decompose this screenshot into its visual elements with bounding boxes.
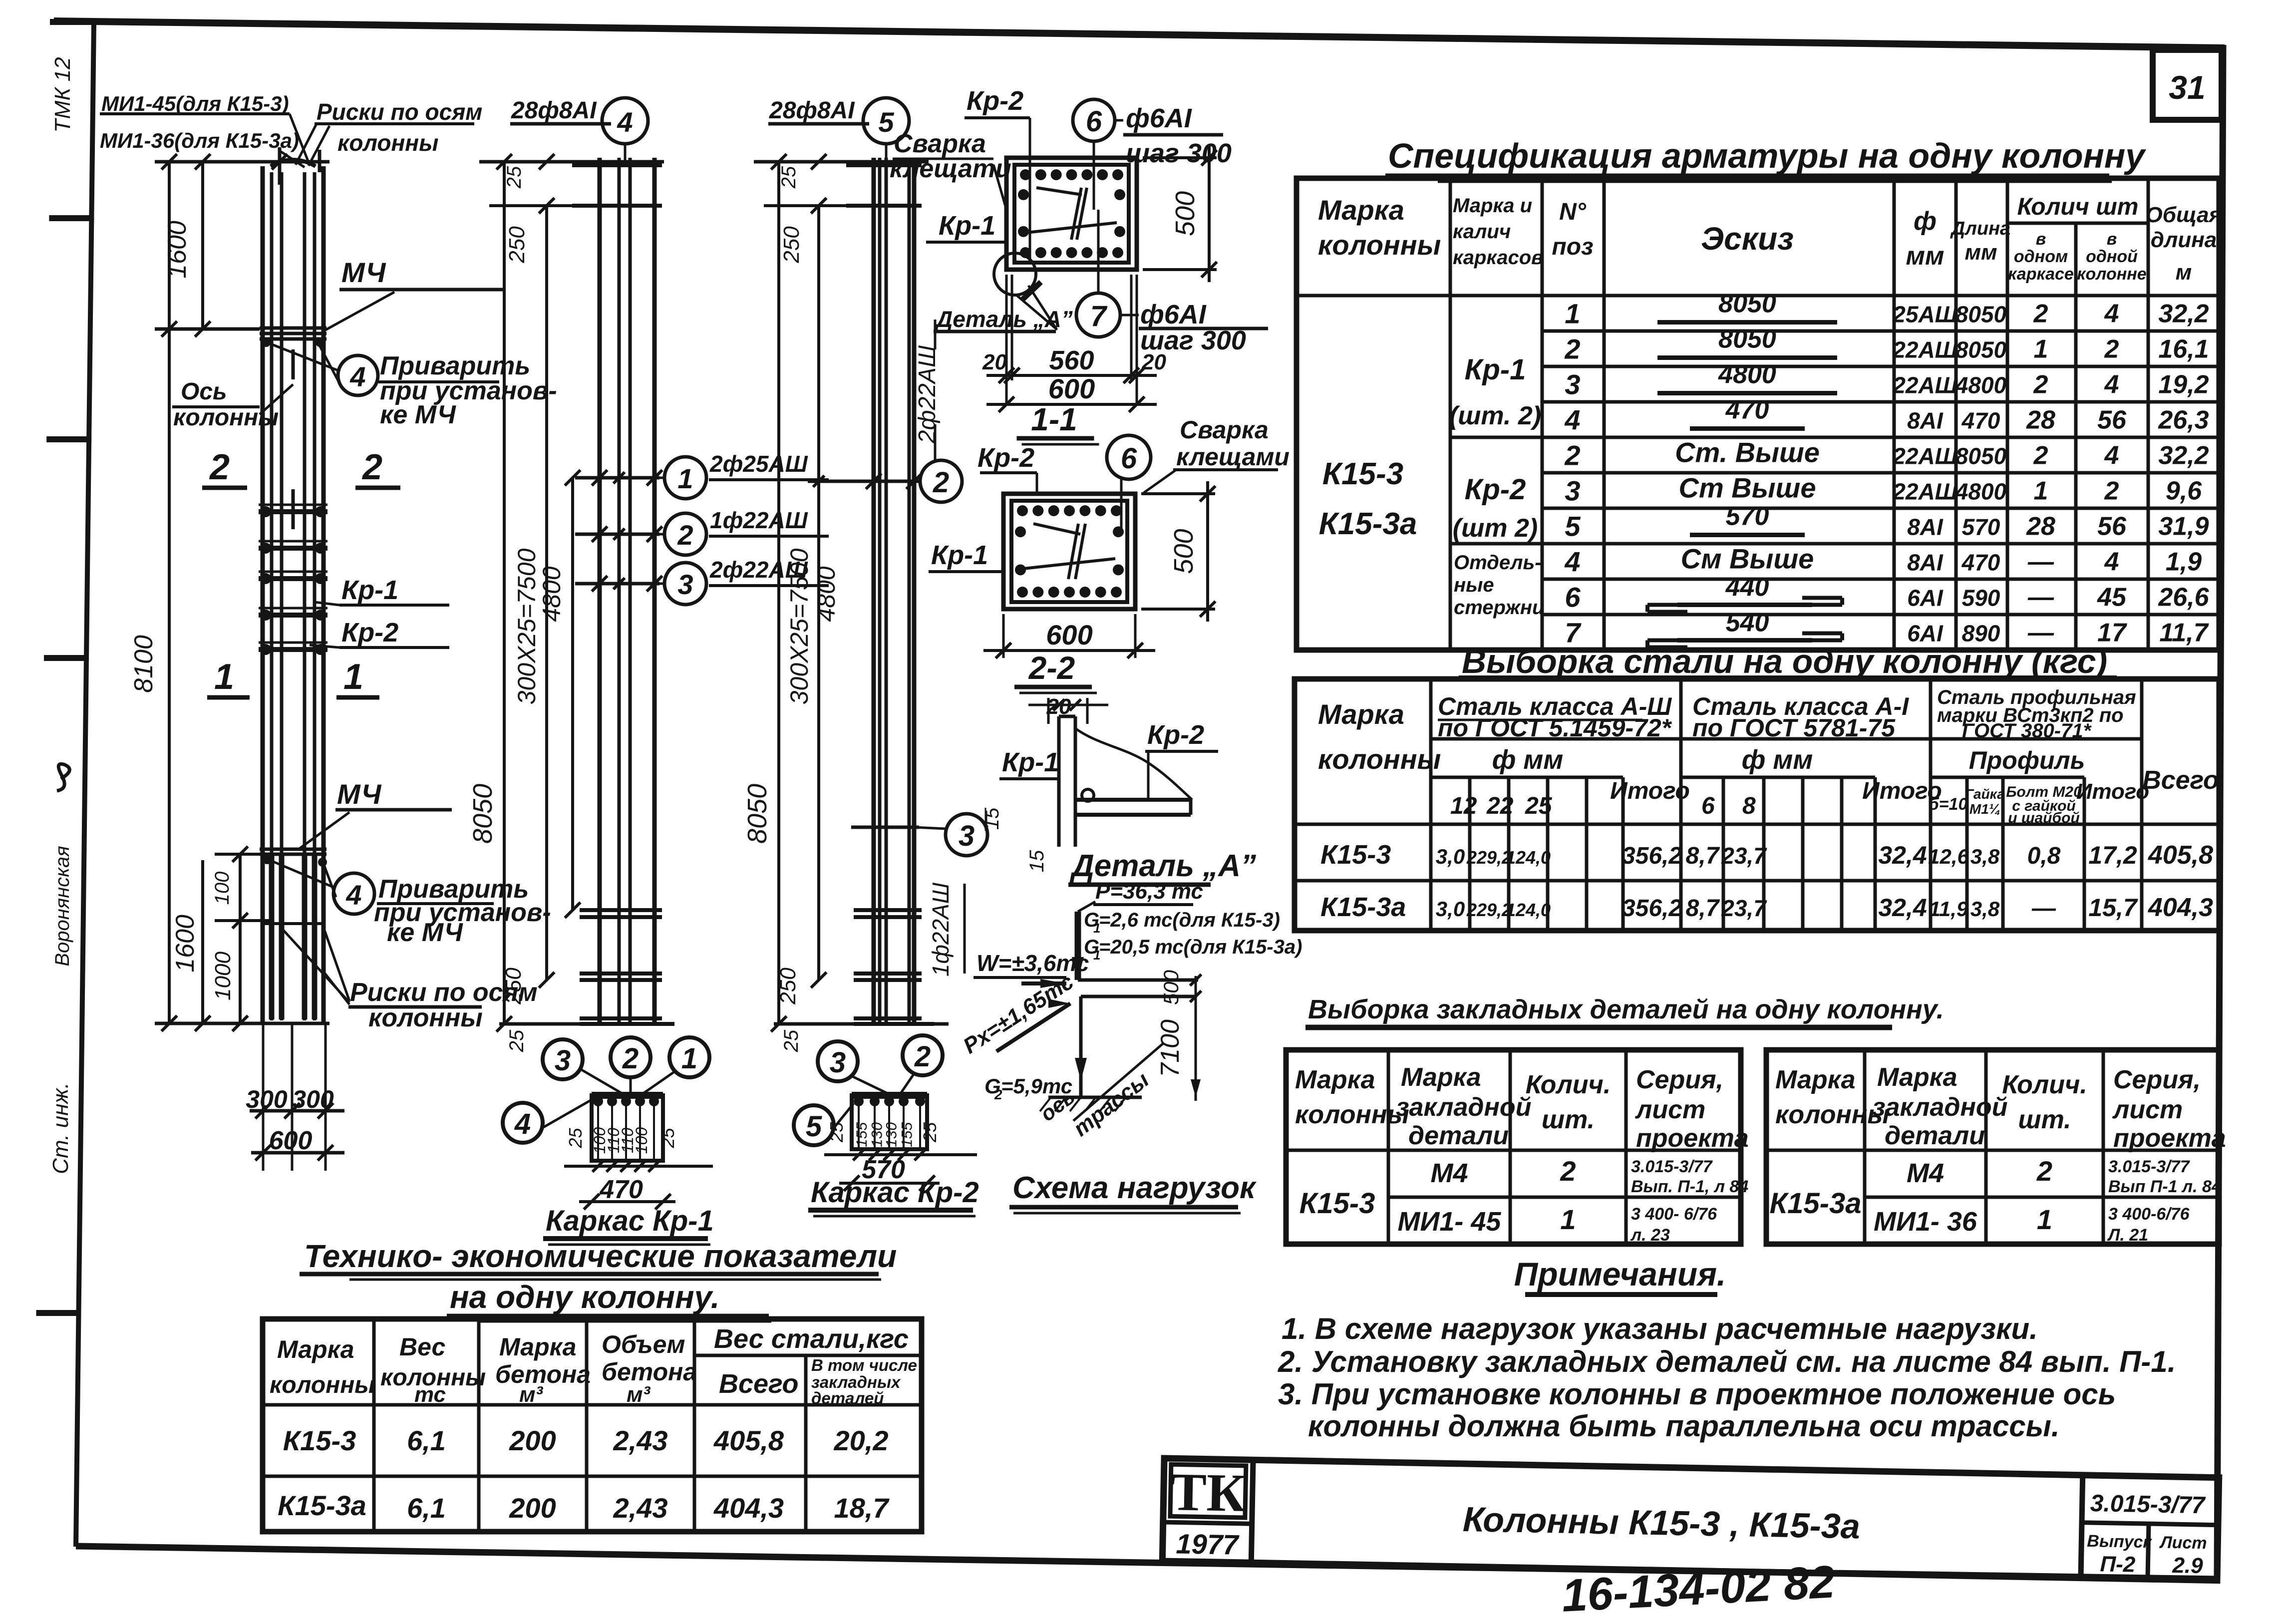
svg-text:31,9: 31,9: [2158, 512, 2209, 541]
svg-text:лист: лист: [2112, 1095, 2183, 1124]
svg-text:405,8: 405,8: [2148, 841, 2213, 870]
svg-text:=5,9тс: =5,9тс: [1001, 1074, 1072, 1098]
svg-text:17,2: 17,2: [2088, 841, 2137, 869]
svg-text:31: 31: [2169, 69, 2205, 106]
svg-text:одной: одной: [2086, 247, 2138, 266]
svg-text:Вес: Вес: [399, 1333, 446, 1361]
svg-text:Вес стали,кгс: Вес стали,кгс: [714, 1324, 909, 1354]
svg-text:м³: м³: [627, 1382, 651, 1407]
svg-text:100: 100: [633, 1127, 650, 1154]
svg-text:колонны: колонны: [1318, 743, 1441, 775]
svg-text:Марка: Марка: [1775, 1065, 1856, 1094]
svg-text:3: 3: [1565, 475, 1580, 507]
svg-text:колонне: колонне: [2077, 265, 2146, 284]
svg-text:и шайбой: и шайбой: [2008, 810, 2080, 826]
svg-text:1: 1: [2034, 477, 2048, 506]
svg-text:45: 45: [2097, 583, 2127, 612]
svg-text:4: 4: [1564, 546, 1580, 578]
svg-text:Колич.: Колич.: [2002, 1070, 2087, 1099]
svg-text:К15-3а: К15-3а: [1770, 1187, 1862, 1220]
svg-text:—: —: [2027, 548, 2054, 577]
svg-text:2: 2: [914, 1040, 931, 1073]
svg-text:8050: 8050: [1718, 290, 1776, 319]
svg-text:6: 6: [1565, 582, 1581, 613]
svg-text:3: 3: [555, 1044, 571, 1077]
svg-text:404,3: 404,3: [2148, 893, 2213, 922]
svg-text:28: 28: [2026, 512, 2055, 541]
svg-text:2: 2: [1560, 1155, 1576, 1187]
svg-text:ф6АI: ф6АI: [1140, 300, 1207, 329]
svg-text:ф мм: ф мм: [1742, 745, 1813, 775]
svg-text:405,8: 405,8: [713, 1425, 784, 1456]
svg-text:25: 25: [506, 1029, 528, 1052]
svg-text:ф: ф: [1914, 207, 1937, 236]
svg-text:—: —: [2027, 583, 2054, 612]
svg-text:колонны: колонны: [1295, 1100, 1409, 1129]
svg-text:Колонны К15-3 , К15-3а: Колонны К15-3 , К15-3а: [1462, 1500, 1860, 1546]
svg-text:4800: 4800: [1955, 372, 2007, 398]
svg-text:МИ1-36(для К15-3а): МИ1-36(для К15-3а): [100, 129, 299, 152]
svg-text:25: 25: [778, 166, 800, 189]
svg-text:2. Установку закладных детал: 2. Установку закладных деталей см. на ли…: [1278, 1345, 2176, 1378]
svg-text:250: 250: [501, 968, 526, 1005]
svg-text:Колич.: Колич.: [1526, 1070, 1611, 1099]
svg-text:8050: 8050: [468, 784, 498, 844]
svg-text:мм: мм: [1906, 242, 1945, 271]
svg-text:3: 3: [677, 569, 693, 600]
svg-text:4: 4: [514, 1108, 531, 1140]
svg-text:П-2: П-2: [2100, 1552, 2136, 1577]
svg-text:470: 470: [1725, 396, 1769, 425]
svg-text:одном: одном: [2014, 247, 2068, 266]
svg-text:11,9: 11,9: [1929, 897, 1968, 921]
svg-text:2: 2: [1564, 440, 1580, 471]
svg-text:2,43: 2,43: [613, 1425, 668, 1456]
svg-text:ф6АI: ф6АI: [1126, 103, 1192, 133]
svg-text:22АШ: 22АШ: [1892, 443, 1957, 469]
svg-text:6: 6: [1701, 793, 1715, 819]
svg-text:Деталь „А”: Деталь „А”: [1069, 849, 1256, 883]
svg-text:570: 570: [1726, 502, 1769, 531]
svg-text:1,9: 1,9: [2166, 548, 2202, 577]
svg-text:МИ1- 45: МИ1- 45: [1398, 1207, 1502, 1237]
svg-text:23,7: 23,7: [1721, 843, 1767, 869]
svg-text:440: 440: [1725, 573, 1769, 602]
svg-text:4: 4: [617, 106, 633, 138]
svg-text:300X25=7500: 300X25=7500: [513, 548, 541, 704]
svg-text:Итого: Итого: [1610, 778, 1690, 804]
svg-text:Марка: Марка: [277, 1335, 354, 1363]
svg-text:4800: 4800: [812, 566, 840, 622]
svg-text:2ф22АШ: 2ф22АШ: [914, 345, 941, 444]
svg-text:22АШ: 22АШ: [1892, 479, 1957, 505]
svg-text:проекта: проекта: [1636, 1124, 1749, 1153]
svg-text:Общая: Общая: [2146, 203, 2222, 227]
svg-text:МЧ: МЧ: [337, 778, 382, 810]
svg-text:шаг 300: шаг 300: [1126, 138, 1232, 168]
svg-text:м³: м³: [519, 1382, 544, 1407]
svg-text:1: 1: [677, 463, 693, 494]
svg-text:6: 6: [1086, 105, 1102, 138]
svg-text:25: 25: [826, 1122, 847, 1143]
svg-text:11,7: 11,7: [2159, 619, 2209, 648]
svg-text:7: 7: [1090, 300, 1108, 332]
svg-text:2: 2: [2033, 441, 2048, 470]
svg-text:Итого: Итого: [2076, 779, 2149, 804]
svg-text:в: в: [2107, 230, 2117, 249]
svg-text:4: 4: [345, 879, 361, 911]
svg-text:колонны: колонны: [270, 1372, 375, 1398]
svg-text:124,0: 124,0: [1506, 900, 1551, 920]
svg-text:1: 1: [214, 657, 234, 697]
svg-text:тс: тс: [414, 1382, 446, 1407]
svg-text:=2,6 тс(для К15-3): =2,6 тс(для К15-3): [1099, 909, 1280, 931]
svg-text:56: 56: [2097, 512, 2127, 541]
svg-text:Кр-2: Кр-2: [977, 443, 1034, 473]
svg-text:8050: 8050: [1955, 302, 2007, 327]
svg-text:8АI: 8АI: [1907, 550, 1944, 576]
svg-text:3,0: 3,0: [1436, 897, 1465, 921]
svg-text:3: 3: [1565, 369, 1580, 400]
svg-text:Ось: Ось: [181, 378, 227, 405]
svg-text:8АI: 8АI: [1907, 408, 1944, 434]
svg-text:500: 500: [1159, 970, 1183, 1005]
svg-text:4800: 4800: [538, 566, 566, 622]
svg-text:Ст. Выше: Ст. Выше: [1675, 437, 1820, 468]
svg-text:32,2: 32,2: [2158, 300, 2209, 328]
svg-text:2.9: 2.9: [2172, 1553, 2204, 1578]
svg-text:6: 6: [1121, 442, 1137, 475]
svg-text:22АШ: 22АШ: [1892, 337, 1957, 363]
svg-text:Кр-1: Кр-1: [931, 540, 988, 570]
svg-text:Кр-2: Кр-2: [341, 618, 398, 648]
svg-text:250: 250: [779, 226, 804, 264]
svg-text:деталей: деталей: [811, 1389, 884, 1407]
svg-text:P=36,3 тс: P=36,3 тс: [1095, 879, 1203, 904]
svg-text:590: 590: [1962, 585, 2000, 611]
svg-text:3 400- 6/76: 3 400- 6/76: [1631, 1205, 1717, 1224]
svg-text:по ГОСТ 5.1459-72*: по ГОСТ 5.1459-72*: [1438, 714, 1672, 742]
svg-text:по ГОСТ 5781-75: по ГОСТ 5781-75: [1692, 714, 1896, 742]
svg-text:2: 2: [2036, 1155, 2052, 1187]
svg-text:2: 2: [677, 519, 693, 551]
svg-text:Деталь „А”: Деталь „А”: [934, 306, 1073, 332]
svg-text:22: 22: [1486, 793, 1514, 819]
svg-text:500: 500: [1169, 529, 1199, 574]
svg-text:2: 2: [1564, 333, 1580, 365]
svg-text:32,2: 32,2: [2158, 441, 2209, 470]
svg-text:2: 2: [2033, 300, 2048, 328]
svg-text:Примечания.: Примечания.: [1514, 1256, 1726, 1293]
svg-text:закладной: закладной: [1872, 1093, 2007, 1122]
svg-text:м: м: [2176, 260, 2192, 285]
svg-text:Длина: Длина: [1950, 218, 2010, 239]
svg-text:229,2: 229,2: [1466, 847, 1512, 868]
svg-text:20,2: 20,2: [834, 1425, 889, 1456]
svg-text:Риски по осям: Риски по осям: [317, 99, 482, 125]
svg-text:25АШ: 25АШ: [1892, 302, 1957, 327]
svg-text:колонны: колонны: [1318, 229, 1441, 261]
svg-text:1: 1: [681, 1042, 697, 1075]
svg-text:18,7: 18,7: [834, 1492, 890, 1524]
svg-text:Марка: Марка: [1318, 194, 1404, 226]
svg-text:3: 3: [830, 1046, 846, 1079]
svg-text:3. При установке колонны: 3. При установке колонны в проектное пол…: [1278, 1377, 2116, 1411]
svg-text:Марка и: Марка и: [1453, 195, 1532, 217]
svg-text:МИ1- 36: МИ1- 36: [1874, 1207, 1977, 1237]
svg-text:28ф8АI: 28ф8АI: [511, 97, 597, 124]
svg-text:Серия,: Серия,: [2113, 1065, 2201, 1094]
svg-text:4: 4: [2104, 548, 2119, 577]
svg-text:колонны: колонны: [337, 130, 438, 156]
svg-text:5: 5: [878, 106, 894, 138]
svg-text:1-1: 1-1: [1031, 401, 1077, 437]
svg-text:К15-3а: К15-3а: [1319, 507, 1417, 541]
svg-text:12: 12: [1450, 793, 1477, 819]
svg-text:длина: длина: [2151, 228, 2217, 252]
svg-text:4: 4: [2104, 300, 2119, 328]
svg-text:ные: ные: [1454, 574, 1494, 596]
svg-text:Эскиз: Эскиз: [1701, 221, 1794, 257]
svg-text:Каркас Кр-1: Каркас Кр-1: [546, 1205, 714, 1237]
svg-text:2: 2: [2104, 335, 2119, 364]
svg-text:4: 4: [349, 361, 365, 392]
svg-text:Всего: Всего: [719, 1369, 799, 1399]
svg-text:б=10: б=10: [1929, 795, 1968, 814]
svg-text:250: 250: [505, 226, 529, 264]
svg-text:1600: 1600: [163, 221, 192, 279]
svg-text:Выпуск: Выпуск: [2087, 1532, 2153, 1552]
svg-text:6,1: 6,1: [407, 1425, 446, 1456]
svg-text:Профиль: Профиль: [1969, 746, 2085, 774]
svg-text:32,4: 32,4: [1878, 894, 1927, 922]
svg-text:Серия,: Серия,: [1636, 1065, 1723, 1094]
svg-text:Марка: Марка: [1318, 698, 1404, 730]
svg-text:каркасе: каркасе: [2008, 265, 2074, 284]
svg-text:3,8: 3,8: [1970, 897, 2000, 921]
svg-text:25: 25: [780, 1029, 802, 1052]
svg-text:Марка: Марка: [1401, 1063, 1481, 1092]
svg-text:356,2: 356,2: [1622, 895, 1682, 922]
svg-text:Колич шт: Колич шт: [2017, 194, 2139, 220]
svg-text:Выборка закладных деталей: Выборка закладных деталей на одну колонн…: [1308, 994, 1944, 1024]
svg-text:К15-3а: К15-3а: [278, 1490, 366, 1521]
svg-text:1000: 1000: [211, 952, 235, 1000]
svg-text:3.015-3/77: 3.015-3/77: [2108, 1157, 2191, 1176]
svg-text:26,6: 26,6: [2158, 583, 2209, 612]
svg-text:8050: 8050: [742, 784, 772, 844]
svg-text:К15-3: К15-3: [1320, 840, 1391, 870]
svg-text:2: 2: [2104, 477, 2119, 506]
svg-text:детали: детали: [1408, 1121, 1509, 1150]
svg-text:16,1: 16,1: [2158, 335, 2209, 364]
svg-text:2: 2: [361, 447, 382, 487]
svg-text:600: 600: [1046, 619, 1092, 650]
svg-text:9,6: 9,6: [2166, 477, 2202, 506]
svg-text:Схема нагрузок: Схема нагрузок: [1012, 1171, 1257, 1205]
svg-text:3: 3: [959, 820, 975, 852]
svg-text:300X25=7500: 300X25=7500: [785, 548, 813, 704]
svg-text:8050: 8050: [1955, 337, 2007, 363]
svg-text:Каркас Кр-2: Каркас Кр-2: [811, 1176, 979, 1209]
svg-text:Гайка: Гайка: [1965, 786, 2005, 802]
svg-text:2: 2: [2033, 370, 2048, 399]
svg-text:МИ1-45(для К15-3): МИ1-45(для К15-3): [101, 92, 289, 115]
svg-text:4: 4: [1564, 404, 1580, 436]
svg-text:3.015-3/77: 3.015-3/77: [2090, 1490, 2206, 1519]
svg-text:23,7: 23,7: [1721, 895, 1767, 921]
svg-text:404,3: 404,3: [713, 1492, 784, 1524]
svg-text:Кр-2: Кр-2: [1465, 473, 1526, 506]
svg-text:1: 1: [1565, 298, 1580, 329]
svg-text:Спецификация арматуры на од: Спецификация арматуры на одну колонну: [1388, 136, 2146, 175]
svg-text:Кр-1: Кр-1: [1465, 353, 1526, 386]
svg-text:12,6: 12,6: [1928, 845, 1969, 868]
svg-text:8: 8: [1742, 793, 1756, 819]
svg-text:3 400-6/76: 3 400-6/76: [2108, 1205, 2190, 1224]
svg-text:3,8: 3,8: [1970, 845, 2000, 868]
svg-text:1600: 1600: [171, 915, 200, 973]
svg-text:К15-3а: К15-3а: [1320, 892, 1406, 922]
svg-text:4: 4: [2104, 441, 2119, 470]
svg-text:Марка: Марка: [1877, 1063, 1957, 1092]
svg-text:шаг 300: шаг 300: [1140, 325, 1246, 355]
svg-text:Всего: Всего: [2142, 766, 2219, 795]
svg-text:15: 15: [1026, 850, 1048, 872]
svg-text:ке МЧ: ке МЧ: [387, 918, 463, 947]
svg-text:2: 2: [622, 1042, 639, 1075]
svg-text:25: 25: [657, 1128, 678, 1149]
svg-text:20: 20: [1046, 694, 1071, 719]
svg-text:ТК: ТК: [1170, 1462, 1247, 1523]
svg-text:25: 25: [503, 166, 525, 189]
svg-text:Воронянская: Воронянская: [51, 846, 73, 966]
svg-text:М1¼: М1¼: [1969, 801, 2000, 817]
svg-text:300: 300: [246, 1085, 288, 1113]
svg-text:2: 2: [209, 447, 230, 487]
svg-text:28: 28: [2026, 406, 2055, 435]
svg-text:колонны должна быть пара: колонны должна быть параллельна оси трас…: [1308, 1409, 2060, 1443]
svg-text:—: —: [2031, 895, 2056, 922]
svg-text:каркасов: каркасов: [1453, 247, 1543, 269]
svg-text:3,0: 3,0: [1436, 845, 1465, 868]
svg-text:25: 25: [565, 1128, 586, 1149]
svg-text:300: 300: [292, 1085, 334, 1113]
svg-text:Выборка стали на одну коло: Выборка стали на одну колонну (кгс): [1462, 643, 2107, 680]
svg-text:N°: N°: [1559, 199, 1587, 225]
svg-text:1: 1: [2034, 335, 2048, 364]
svg-text:МЧ: МЧ: [341, 257, 386, 288]
svg-text:470: 470: [1961, 408, 2000, 434]
svg-text:2ф25АШ: 2ф25АШ: [709, 451, 808, 477]
svg-text:200: 200: [509, 1425, 556, 1456]
svg-text:на одну колонну.: на одну колонну.: [450, 1279, 720, 1315]
svg-text:W=±3,6тс: W=±3,6тс: [976, 950, 1089, 976]
svg-text:8050: 8050: [1718, 325, 1776, 354]
svg-text:поз: поз: [1552, 234, 1593, 260]
svg-text:15,7: 15,7: [2088, 894, 2138, 922]
svg-text:Кр-1: Кр-1: [939, 211, 995, 241]
svg-text:356,2: 356,2: [1622, 843, 1682, 869]
svg-text:600: 600: [1048, 373, 1095, 404]
svg-text:155: 155: [899, 1122, 916, 1147]
svg-text:детали: детали: [1885, 1121, 1985, 1150]
svg-text:2: 2: [933, 466, 949, 499]
svg-text:6,1: 6,1: [407, 1492, 446, 1524]
svg-text:100: 100: [211, 872, 233, 905]
svg-text:К15-3: К15-3: [1300, 1187, 1375, 1220]
svg-text:К15-3: К15-3: [283, 1425, 356, 1456]
svg-text:К15-3: К15-3: [1322, 457, 1403, 491]
svg-text:1977: 1977: [1176, 1528, 1240, 1560]
svg-text:клещами: клещами: [1176, 443, 1290, 471]
svg-text:проекта: проекта: [2113, 1124, 2226, 1153]
svg-text:5: 5: [1565, 511, 1581, 542]
svg-text:М4: М4: [1907, 1158, 1944, 1188]
svg-text:2-2: 2-2: [1028, 650, 1075, 686]
svg-text:ТМК 12: ТМК 12: [50, 57, 75, 132]
svg-text:28ф8АI: 28ф8АI: [769, 97, 855, 124]
svg-text:5: 5: [806, 1110, 822, 1143]
svg-text:570: 570: [1962, 514, 2000, 540]
svg-text:4: 4: [2104, 370, 2119, 399]
svg-text:л. 23: л. 23: [1630, 1226, 1670, 1245]
svg-text:155: 155: [854, 1122, 870, 1147]
svg-text:500: 500: [1170, 191, 1200, 236]
svg-text:Ст. инж.: Ст. инж.: [48, 1082, 73, 1174]
svg-text:1ф22АШ: 1ф22АШ: [710, 507, 808, 533]
svg-text:М4: М4: [1430, 1158, 1468, 1188]
svg-text:540: 540: [1726, 609, 1769, 638]
svg-text:470: 470: [1961, 550, 2000, 576]
svg-text:8050: 8050: [1955, 443, 2007, 469]
svg-text:1: 1: [2037, 1204, 2052, 1235]
svg-text:26,3: 26,3: [2158, 406, 2209, 435]
svg-text:мм: мм: [1964, 240, 1997, 265]
svg-text:8100: 8100: [129, 635, 158, 693]
svg-text:В том числе: В том числе: [811, 1356, 917, 1374]
svg-text:19,2: 19,2: [2158, 370, 2209, 399]
svg-text:8АI: 8АI: [1907, 514, 1944, 540]
svg-text:закладной: закладной: [1396, 1093, 1531, 1122]
svg-text:1: 1: [1560, 1204, 1576, 1235]
svg-text:25: 25: [920, 1122, 940, 1143]
svg-text:25: 25: [1525, 793, 1553, 819]
svg-text:0,8: 0,8: [2027, 843, 2061, 869]
svg-text:калич: калич: [1453, 221, 1511, 243]
svg-text:Марка: Марка: [1295, 1065, 1375, 1094]
svg-text:шт.: шт.: [1542, 1105, 1595, 1134]
svg-text:1: 1: [343, 657, 363, 697]
svg-text:(шт. 2): (шт. 2): [1449, 401, 1541, 430]
svg-text:600: 600: [269, 1126, 313, 1155]
svg-text:250: 250: [776, 968, 800, 1005]
svg-text:1ф22АШ: 1ф22АШ: [928, 882, 954, 976]
svg-text:Л. 21: Л. 21: [2107, 1226, 2148, 1245]
svg-text:Ст Выше: Ст Выше: [1679, 472, 1816, 504]
svg-text:бетона: бетона: [495, 1360, 591, 1388]
svg-text:=20,5 тс(для К15-3а): =20,5 тс(для К15-3а): [1099, 936, 1302, 958]
svg-text:Кр-2: Кр-2: [967, 86, 1023, 116]
svg-text:Марка: Марка: [499, 1333, 576, 1361]
svg-text:шт.: шт.: [2018, 1105, 2071, 1134]
svg-text:Вып. П-1, л 84: Вып. П-1, л 84: [1631, 1177, 1748, 1196]
svg-text:3.015-3/77: 3.015-3/77: [1631, 1157, 1713, 1176]
svg-text:лист: лист: [1634, 1095, 1705, 1124]
svg-text:22АШ: 22АШ: [1892, 372, 1957, 398]
svg-text:124,0: 124,0: [1506, 847, 1551, 868]
svg-text:470: 470: [599, 1175, 643, 1204]
